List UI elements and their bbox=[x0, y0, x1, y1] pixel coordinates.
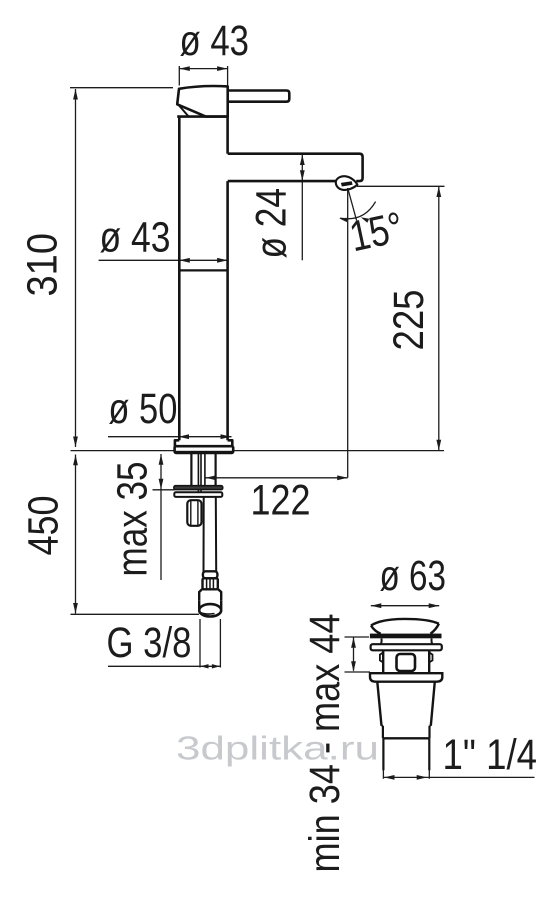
svg-text:310: 310 bbox=[19, 233, 67, 297]
arrowheads dim G3/8 bbox=[200, 664, 208, 668]
head bottom line bbox=[177, 115, 228, 118]
head cap bbox=[177, 86, 228, 117]
dim 1"1/4: dimension line bbox=[384, 776, 535, 778]
dim 310: dimension line bbox=[75, 89, 77, 447]
drain bottom flange bbox=[370, 673, 442, 682]
svg-text:min 34 - max 44: min 34 - max 44 bbox=[301, 614, 349, 873]
dim ø63: dimension line bbox=[371, 605, 439, 607]
arrowheads dim 122 bbox=[206, 475, 217, 480]
svg-text:ø 63: ø 63 bbox=[380, 552, 447, 600]
15 deg tilted line bbox=[348, 188, 357, 221]
dim max35: dimension line bbox=[160, 454, 162, 580]
hose nut cone bbox=[199, 589, 221, 600]
drain flange washer bbox=[371, 644, 442, 650]
dim 225: top extension line bbox=[357, 185, 445, 187]
dim 225: base extension line right bbox=[233, 450, 444, 452]
dim ø24: dimension line bbox=[301, 154, 303, 260]
svg-text:ø 24: ø 24 bbox=[248, 188, 296, 259]
base plate bbox=[175, 446, 234, 453]
svg-text:ø 43: ø 43 bbox=[100, 214, 171, 262]
svg-text:225: 225 bbox=[385, 290, 433, 351]
arrowheads dim ø50 bbox=[179, 434, 190, 439]
aerator bbox=[336, 176, 358, 190]
dim 225: dimension line bbox=[438, 186, 440, 450]
base shoulders bbox=[175, 440, 232, 446]
drain seal dark band bbox=[370, 634, 442, 639]
overflow square hole bbox=[397, 654, 416, 671]
dim 450: dimension line bbox=[75, 455, 77, 614]
svg-text:ø 50: ø 50 bbox=[108, 385, 177, 433]
drain side lugs bbox=[380, 652, 433, 662]
dim ø43 top: extension lines bbox=[179, 66, 227, 86]
arrowheads dim 1-1/4 bbox=[384, 775, 395, 780]
body left edge bbox=[178, 117, 181, 441]
dim ø43 top: dimension line bbox=[179, 68, 227, 70]
spout bbox=[228, 154, 363, 181]
dim 310: top extension line bbox=[70, 87, 173, 89]
dim ø43 mid: dimension line bbox=[99, 259, 228, 261]
dim 450: bottom extension line bbox=[71, 613, 200, 615]
svg-text:122: 122 bbox=[251, 477, 311, 525]
shank inner line bbox=[204, 454, 206, 486]
body right edge lower bbox=[226, 181, 229, 440]
body seam bbox=[179, 269, 227, 271]
washer plate white bbox=[174, 492, 222, 497]
arrowheads dim max35 bbox=[159, 454, 164, 465]
arrowheads bbox=[73, 66, 441, 780]
dim ø50: dimension line bbox=[108, 436, 232, 438]
dim max35: bottom extension bbox=[153, 489, 175, 491]
flexible hose bbox=[199, 497, 221, 617]
drain dome cap bbox=[371, 619, 439, 634]
arrowheads dim min34-max44 bbox=[351, 637, 356, 648]
hose ribbed section bbox=[203, 578, 218, 589]
svg-text:ø 43: ø 43 bbox=[180, 17, 250, 65]
svg-text:G 3/8: G 3/8 bbox=[107, 619, 192, 667]
drain neck sides bbox=[381, 638, 432, 644]
arrowheads dim 450 bbox=[73, 455, 78, 466]
arrowheads dim 225 bbox=[436, 187, 441, 198]
dim min34-max44: extensions bbox=[345, 637, 371, 672]
lever handle bbox=[227, 91, 289, 102]
arrowheads dim ø43 top bbox=[179, 66, 190, 71]
arrowheads 15deg arc bbox=[339, 216, 348, 222]
dim 310/450: base extension line left bbox=[71, 450, 175, 452]
head inner line bbox=[179, 105, 189, 116]
mounting nut bbox=[187, 500, 201, 526]
spout bottom line bbox=[228, 180, 337, 183]
dim min34-max44: dimension line bbox=[353, 637, 355, 671]
body right edge upper bbox=[226, 117, 229, 154]
dim 122: dimension line bbox=[206, 477, 348, 479]
drain mid body bbox=[383, 650, 429, 673]
spout outlet vertical reference line bbox=[347, 188, 349, 478]
dim 1"1/4: extension lines bbox=[383, 770, 429, 779]
15 deg arc bbox=[340, 202, 375, 219]
arrowheads dim 310 bbox=[73, 89, 78, 100]
arrowheads dim ø43 mid bbox=[179, 258, 190, 263]
svg-text:1" 1/4: 1" 1/4 bbox=[443, 731, 538, 779]
hose crimp ring bbox=[203, 571, 218, 578]
aerator slot bbox=[341, 181, 353, 186]
pull rod bbox=[198, 454, 201, 498]
washer plate dark bbox=[174, 486, 223, 490]
shank outer walls bbox=[191, 454, 215, 486]
drain tapered body bbox=[377, 682, 435, 726]
arrowheads dim ø63 bbox=[371, 603, 382, 608]
svg-text:max 35: max 35 bbox=[109, 462, 157, 577]
drain collar bottom line bbox=[383, 737, 430, 739]
base plate bottom dark bar bbox=[175, 451, 234, 454]
dim G3/8: extension lines bbox=[200, 619, 220, 668]
svg-text:450: 450 bbox=[20, 496, 68, 556]
drain threaded tail bbox=[383, 738, 429, 770]
dim G3/8: dimension line bbox=[108, 665, 220, 667]
hose connector cup bbox=[199, 600, 221, 609]
drain collar bbox=[382, 726, 431, 739]
arrowheads dim ø24 bbox=[300, 155, 305, 166]
